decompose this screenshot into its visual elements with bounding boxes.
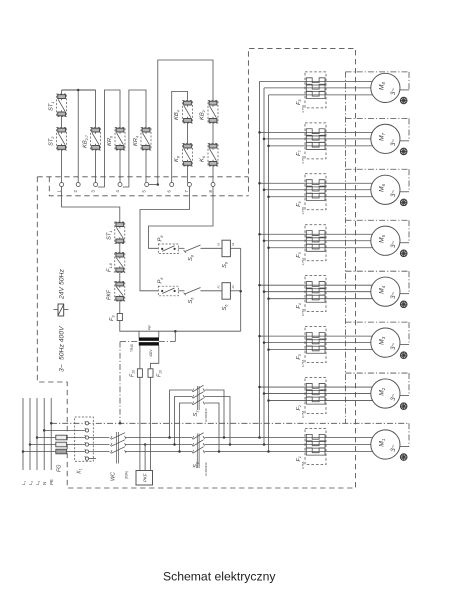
- contactor S3: [192, 389, 194, 392]
- motor M7: [371, 124, 400, 153]
- wire N row: [44, 429, 85, 431]
- switch KB2: [208, 101, 218, 124]
- svg-text:3~: 3~: [390, 342, 397, 349]
- motor M8: [371, 73, 400, 102]
- svg-text:PKF: PKF: [143, 473, 148, 482]
- svg-text:WC: WC: [111, 472, 117, 481]
- switch KR4: [141, 128, 151, 151]
- wire L1 row: [23, 451, 85, 453]
- junction top bus: [77, 89, 80, 92]
- screen dash-dot vertical x=120: [119, 342, 121, 424]
- contact S6 manual: [185, 288, 201, 295]
- wire M3 to enclosure: [400, 344, 409, 346]
- terminal 6: [170, 183, 174, 187]
- main switch WC: [111, 436, 113, 439]
- svg-text:A2: A2: [231, 285, 235, 289]
- wire mains PE: [50, 398, 52, 470]
- wire phases to F5: [260, 233, 373, 235]
- switch ST1: [57, 94, 67, 117]
- svg-text:PKF: PKF: [107, 289, 113, 300]
- wire mains L3: [36, 398, 38, 470]
- wire rows S2 outputs to buses and M1: [205, 437, 373, 439]
- terminal block X1: [75, 417, 94, 461]
- terminal 1: [60, 183, 64, 187]
- motor group M8 dash-dot enclosure: [346, 71, 410, 73]
- wire t7 to P6 row: [140, 187, 189, 291]
- ground M8: [400, 97, 407, 104]
- wire branch 4 lower: [119, 150, 121, 183]
- svg-text:3~: 3~: [390, 393, 397, 400]
- wire coil S6 to rail: [230, 290, 240, 292]
- wire bus L3 vertical: [268, 95, 270, 452]
- wire U-loop t3 to branch 4: [98, 90, 120, 187]
- svg-text:3~: 3~: [390, 88, 397, 95]
- transformer screen dash-dot: [120, 341, 139, 343]
- switch ST1 contact in chain: [115, 222, 125, 244]
- transformer TR primary bar: [139, 338, 159, 341]
- motor M6: [371, 175, 400, 204]
- wire phases to F6: [260, 182, 373, 184]
- svg-text:50Hz 400V: 50Hz 400V: [59, 325, 66, 360]
- svg-text:LC1D0910: LC1D0910: [204, 462, 208, 476]
- motor group M4 dash-dot enclosure: [346, 270, 410, 272]
- ground M1: [400, 454, 407, 461]
- wire branch 2: [77, 90, 79, 183]
- terminal 7: [187, 183, 191, 187]
- svg-text:0,75A: 0,75A: [301, 105, 305, 112]
- filter FG ferrules: [56, 435, 67, 440]
- svg-text:LC1D0910: LC1D0910: [204, 408, 208, 422]
- contactor S2: [192, 436, 194, 439]
- wire phases to F2: [260, 386, 373, 388]
- terminal 2: [76, 183, 80, 187]
- svg-text:FG: FG: [57, 465, 63, 473]
- motor group M1 dash-dot enclosure: [408, 423, 410, 446]
- wire K6 to t8: [212, 166, 214, 183]
- wire: [178, 290, 184, 292]
- ground M7: [400, 148, 407, 155]
- screen dash-dot line y=423: [51, 422, 409, 424]
- node primary-screen tap: [174, 330, 177, 333]
- wire S3 input taps: [170, 390, 193, 438]
- terminal strip band upper dashed line: [37, 176, 248, 178]
- wire M6 to enclosure: [400, 191, 409, 193]
- wire X1 aux: [89, 458, 96, 460]
- overload relay F8: [305, 72, 326, 108]
- svg-text:TR40: TR40: [130, 344, 134, 352]
- wire M1 to enclosure: [400, 446, 409, 448]
- switch KB4: [183, 101, 193, 124]
- svg-text:A2: A2: [231, 242, 235, 246]
- contact PKF: [115, 282, 125, 302]
- overload relay F2: [305, 378, 326, 414]
- fuse F10: [137, 369, 142, 378]
- motor group M2 dash-dot enclosure: [346, 372, 410, 374]
- wire branch 3: [95, 90, 97, 128]
- svg-text:PE: PE: [49, 479, 54, 485]
- switch KB2-7: [91, 128, 101, 151]
- wire M8 to enclosure: [400, 89, 409, 91]
- svg-text:4W: 4W: [148, 325, 152, 330]
- wire branch KB2-K6: [212, 123, 214, 144]
- wire chain to transformer: [120, 321, 241, 332]
- svg-text:400V: 400V: [149, 349, 153, 357]
- contact P6: [158, 286, 178, 296]
- svg-text:24V 50Hz: 24V 50Hz: [59, 269, 66, 300]
- cabinet dashed boundary: [37, 48, 355, 488]
- svg-text:3~: 3~: [390, 240, 397, 247]
- coil S6: [222, 283, 230, 300]
- overload relay F6: [305, 174, 326, 210]
- fuse F9: [117, 314, 122, 321]
- wire t1 to control chain: [62, 187, 120, 223]
- ground M5: [400, 250, 407, 257]
- wire tall loop: [158, 60, 213, 185]
- wire M4 to enclosure: [400, 293, 409, 295]
- terminal 8: [211, 183, 215, 187]
- contact S8 manual: [185, 245, 201, 252]
- terminal strip band lower dashed line: [49, 177, 248, 196]
- contact F1-8: [115, 253, 125, 273]
- wire: [119, 244, 121, 253]
- svg-text:0,75A: 0,75A: [301, 411, 305, 418]
- wire branch 5 lower: [145, 150, 147, 183]
- svg-text:3~: 3~: [390, 444, 397, 451]
- svg-text:3~: 3~: [390, 291, 397, 298]
- ground M4: [400, 301, 407, 308]
- svg-text:N: N: [42, 482, 47, 485]
- svg-text:3~: 3~: [390, 190, 397, 197]
- wire: [178, 247, 184, 249]
- node screen junction: [119, 422, 122, 425]
- fuse F11: [148, 369, 153, 378]
- wire phases to F8: [260, 80, 373, 82]
- ground M2: [400, 403, 407, 410]
- coil S8: [222, 240, 230, 257]
- svg-text:0,75A: 0,75A: [301, 309, 305, 316]
- svg-text:0,75A: 0,75A: [301, 156, 305, 163]
- motor group M3 dash-dot enclosure: [346, 321, 410, 323]
- relay PKF box: [136, 471, 153, 486]
- overload relay F3: [305, 327, 326, 363]
- wire S3 output risers: [205, 390, 225, 438]
- motor M1: [371, 430, 400, 459]
- wire rows WC to S2: [126, 437, 193, 439]
- wire: [201, 290, 223, 292]
- wire mains L2: [29, 398, 31, 470]
- wire t8 to P8 row: [149, 187, 214, 249]
- wire top bus y=90 branches 1-3: [62, 89, 96, 91]
- wire bus L1 vertical: [259, 81, 261, 437]
- svg-text:(63A): (63A): [125, 471, 129, 479]
- wire phases to F3: [260, 335, 373, 337]
- terminal 4: [118, 183, 122, 187]
- wire mains L1: [22, 398, 24, 470]
- switch ST2: [57, 128, 67, 151]
- svg-text:0,75A: 0,75A: [301, 207, 305, 214]
- overload relay F7: [305, 123, 326, 159]
- wire PKF neutral tap: [144, 443, 147, 446]
- wire L2 row: [30, 444, 85, 446]
- switch K8: [183, 144, 193, 167]
- svg-text:0,75A: 0,75A: [301, 462, 305, 469]
- wire M5 to enclosure: [400, 242, 409, 244]
- wire row L3 X1-WC: [89, 437, 110, 439]
- wire: [119, 301, 121, 314]
- right rail: [240, 248, 242, 331]
- motor M5: [371, 226, 400, 255]
- switch KR6: [115, 128, 125, 151]
- wire U-loop t4 to branch 5: [123, 90, 146, 187]
- svg-text:Schemat elektryczny: Schemat elektryczny: [163, 570, 276, 584]
- switch K6: [208, 144, 218, 167]
- wire secondary left: [139, 345, 141, 368]
- motor enclosure dash-dot trunk: [345, 72, 347, 424]
- motor group M6 dash-dot enclosure: [346, 168, 410, 170]
- svg-text:A1: A1: [217, 285, 221, 289]
- wire L3 row: [37, 437, 85, 439]
- wire M7 to enclosure: [400, 140, 409, 142]
- wire bus L2 vertical: [263, 88, 265, 445]
- wire: [201, 247, 223, 249]
- wire branch 1: [61, 90, 63, 94]
- terminal 3: [94, 183, 98, 187]
- wire primary top: [138, 331, 140, 337]
- motor M2: [371, 379, 400, 408]
- motor M3: [371, 328, 400, 357]
- wire phases to F7: [260, 131, 373, 133]
- overload relay F5: [305, 225, 326, 261]
- contact P8: [158, 244, 178, 254]
- wire F11 down to PKF: [150, 377, 152, 470]
- wire coil S8 to rail: [230, 247, 240, 249]
- svg-text:0,75A: 0,75A: [301, 258, 305, 265]
- svg-text:3~: 3~: [59, 364, 66, 372]
- overload relay F4: [305, 276, 326, 312]
- wire F10 down to PKF: [139, 377, 141, 470]
- ground M6: [400, 199, 407, 206]
- symbol converter inline: [58, 304, 64, 316]
- transformer TR secondary bar: [139, 342, 159, 345]
- node bus bottoms: [258, 436, 261, 439]
- wire secondary right: [151, 345, 159, 368]
- ground M3: [400, 352, 407, 359]
- wire mains N: [43, 398, 45, 470]
- motor M4: [371, 277, 400, 306]
- terminal 5: [145, 183, 149, 187]
- motor group M7 dash-dot enclosure: [346, 117, 410, 119]
- motor group M5 dash-dot enclosure: [346, 219, 410, 221]
- wire small loop: [172, 91, 188, 182]
- wire M2 to enclosure: [400, 395, 409, 397]
- svg-text:0,75A: 0,75A: [301, 360, 305, 367]
- overload relay F1: [305, 429, 326, 465]
- wire branch KB4-K8: [187, 123, 189, 144]
- svg-text:3~: 3~: [390, 139, 397, 146]
- svg-text:A1: A1: [217, 242, 221, 246]
- wire K8 to t7: [187, 166, 189, 183]
- wire phases to F4: [260, 284, 373, 286]
- wire: [119, 273, 121, 282]
